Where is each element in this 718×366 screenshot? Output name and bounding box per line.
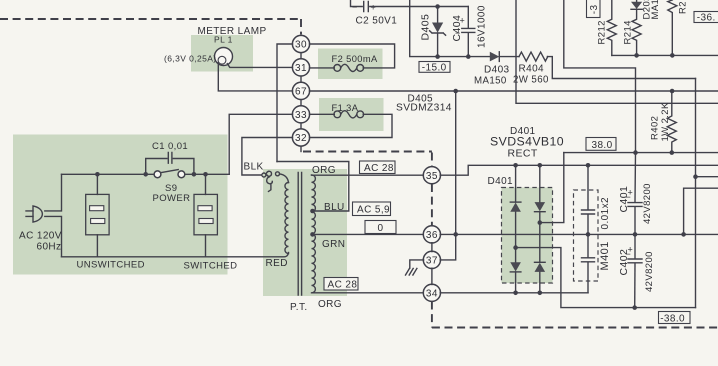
- node: AC line / bridge right: [538, 163, 543, 168]
- svg-text:P.T.: P.T.: [290, 302, 308, 313]
- svg-text:2W 560: 2W 560: [513, 75, 549, 86]
- diode D401c: [535, 202, 546, 211]
- wire: terminal 37 up to 0V line: [440, 234, 456, 260]
- wire: dashed drop to terminal 30: [300, 19, 302, 34]
- svg-text:SVDMZ314: SVDMZ314: [396, 103, 452, 114]
- label: AC 5.9: [353, 202, 391, 216]
- wire: terminal 30 loop to fuse F2: [310, 44, 395, 68]
- resistor R212: [607, 0, 616, 55]
- svg-text:BLK: BLK: [244, 161, 264, 172]
- resistor R214: [632, 9, 641, 55]
- capacitor M401 upper: [587, 165, 589, 209]
- svg-text:67: 67: [295, 87, 307, 98]
- svg-text:R212: R212: [597, 20, 608, 44]
- node 30: [292, 35, 309, 52]
- svg-text:ORG: ORG: [318, 299, 342, 310]
- node: AC line / bridge left: [513, 163, 518, 168]
- svg-text:-36.: -36.: [697, 13, 716, 24]
- wire: 38V rail: [564, 152, 718, 154]
- svg-text:POWER: POWER: [153, 193, 191, 204]
- svg-text:C2 50V1: C2 50V1: [356, 15, 398, 26]
- resistor R216 (clipped): [668, 0, 677, 55]
- wire: C2 to D405/C404 top: [370, 6, 469, 8]
- node: D405 bottom junction: [435, 54, 440, 59]
- wire: 67 rail: [310, 90, 718, 92]
- wire: terminal 34 to bridge AC line (bottom): [440, 292, 588, 294]
- wire: bottom dashed boundary: [432, 327, 718, 329]
- wire: 38V rail to bridge + output: [542, 153, 564, 223]
- wire: C2 feed: [351, 0, 363, 7]
- svg-text:UNSWITCHED: UNSWITCHED: [77, 259, 145, 270]
- wire: bridge - output to -38 rail: [516, 248, 696, 308]
- wire: terminal column link: [300, 34, 302, 146]
- rectifier D401 dashed outline: [502, 188, 553, 284]
- wire: lamp to terminal 67: [218, 63, 292, 91]
- node 35: [423, 167, 440, 184]
- wire: plug lower lead: [45, 216, 62, 256]
- svg-text:R404: R404: [519, 64, 545, 75]
- transformer P.T. secondary winding: [312, 175, 316, 293]
- svg-text:-15.0: -15.0: [422, 62, 447, 73]
- svg-text:C1 0,01: C1 0,01: [152, 141, 188, 152]
- zener D405: [437, 7, 439, 23]
- svg-text:33: 33: [295, 110, 307, 121]
- svg-text:AC 120V: AC 120V: [19, 231, 62, 242]
- wire: terminal 30 to BLU feed corner: [277, 44, 293, 162]
- node: R216 bottom: [670, 53, 675, 58]
- node: R214 bottom: [634, 53, 639, 58]
- node: 0V / drop from 67 rail and terminal 37: [453, 232, 458, 237]
- svg-text:-3: -3: [589, 4, 600, 14]
- svg-text:F2 500mA: F2 500mA: [332, 54, 378, 64]
- wire: bus from top to 103 rail: [516, 0, 718, 103]
- wire: dashed link terminal 35 to terminal 36: [431, 184, 433, 226]
- capacitor C2: [364, 2, 369, 12]
- node: -38 rail / C402: [632, 305, 637, 310]
- wire: 0V drop from 67 rail: [455, 91, 457, 234]
- node: C404 bottom junction: [466, 54, 471, 59]
- wire: terminal 37 to chassis ground: [410, 260, 424, 268]
- wire: bottom return to RED: [62, 253, 289, 257]
- label: -38.0: [659, 312, 691, 324]
- svg-text:0: 0: [378, 223, 384, 234]
- svg-text:(6,3V 0,25A): (6,3V 0,25A): [164, 53, 217, 63]
- wire: right 0V drop: [684, 188, 718, 234]
- wire: BLK to primary top: [280, 174, 289, 183]
- wire: -38 vertical: [695, 79, 697, 308]
- node: outlet 2 tap: [203, 172, 208, 177]
- svg-text:−: −: [352, 2, 358, 12]
- svg-text:M401: M401: [599, 241, 611, 270]
- svg-text:31: 31: [295, 63, 307, 74]
- diode D401d: [535, 263, 546, 272]
- wire: D403 to R404: [499, 56, 519, 58]
- label: 0: [365, 221, 396, 234]
- svg-text:F1 3A: F1 3A: [332, 103, 359, 113]
- capacitor C402: [634, 234, 636, 258]
- svg-text:38.0: 38.0: [592, 140, 613, 151]
- svg-text:AC 5,9: AC 5,9: [357, 205, 390, 216]
- label: AC 28 (top): [360, 161, 396, 174]
- wire: unswitched top feed: [62, 173, 155, 175]
- node 67: [292, 82, 309, 99]
- ground: [406, 268, 417, 275]
- svg-text:16V1000: 16V1000: [477, 5, 488, 48]
- wire: terminal 31 to fuse F2: [310, 67, 335, 69]
- svg-text:35: 35: [426, 171, 438, 182]
- svg-text:D405: D405: [420, 14, 432, 41]
- node: junction 38V rail / R402: [670, 150, 675, 155]
- svg-text:MA150: MA150: [650, 0, 661, 20]
- capacitor M401 lower: [587, 234, 589, 257]
- outlet unswitched: [86, 194, 109, 234]
- node 32: [292, 129, 309, 146]
- node 36: [423, 226, 440, 243]
- svg-text:RED: RED: [266, 258, 288, 269]
- transformer core: [298, 173, 301, 296]
- node: bridge + output: [538, 220, 543, 225]
- svg-text:42V8200: 42V8200: [644, 251, 655, 292]
- label: -36.x (clipped): [694, 12, 718, 23]
- node: 0V / M401 mid: [586, 232, 591, 237]
- node: junction 67 rail / R402: [670, 89, 675, 94]
- node: AC line / M401: [586, 163, 591, 168]
- label: 38.0: [586, 138, 616, 151]
- wire: BLU tap to terminal 30 feed: [277, 162, 349, 212]
- node: AC bottom / bridge right: [538, 291, 543, 296]
- svg-text:GRN: GRN: [322, 239, 345, 250]
- highlight: rectifier D401: [502, 188, 553, 284]
- fuse F1: [334, 111, 341, 118]
- svg-text:32: 32: [295, 133, 307, 144]
- node: AC bottom / bridge left: [513, 291, 518, 296]
- switch S9: [154, 171, 161, 178]
- svg-text:R214: R214: [623, 20, 634, 44]
- capacitor C404: [467, 7, 469, 29]
- wire: switched feed up to terminal 33: [229, 114, 292, 174]
- transformer P.T. primary winding: [285, 183, 289, 254]
- svg-text:34: 34: [426, 288, 438, 299]
- svg-text:60Hz: 60Hz: [37, 242, 62, 253]
- label: -3x (clipped): [587, 0, 601, 18]
- svg-text:RECT: RECT: [508, 147, 538, 159]
- wire: +38 feed from top: [564, 0, 636, 153]
- highlight: meter lamp PL1: [191, 35, 253, 72]
- label: -15.0: [419, 62, 450, 73]
- diode D401a: [510, 203, 521, 212]
- svg-text:+: +: [460, 16, 466, 26]
- wire: plug upper lead: [45, 174, 62, 211]
- wire: ORG bottom to terminal 34: [313, 292, 424, 294]
- capacitor M401 dashed outline: [574, 190, 599, 281]
- wire: terminal 35 to bridge AC line: [440, 165, 718, 175]
- node: bridge - output: [513, 245, 518, 250]
- highlight: fuse F1: [319, 98, 384, 131]
- wire: bridge left branch: [515, 165, 517, 292]
- wire: dashed link terminal 32 to terminal 35: [300, 146, 302, 152]
- wire: -38 stub to edge: [696, 176, 718, 178]
- wire: link 37-34: [431, 268, 433, 284]
- node: D405 top junction: [435, 4, 440, 9]
- AC plug: [33, 206, 42, 222]
- svg-text:36: 36: [426, 230, 438, 241]
- node: junction 38V rail / C401: [633, 150, 638, 155]
- node: C1 left: [143, 172, 148, 177]
- wire: bridge right branch: [539, 165, 541, 292]
- lamp PL1: [215, 48, 233, 66]
- highlight: power transformer P.T.: [263, 169, 347, 296]
- svg-text:+: +: [628, 188, 634, 198]
- svg-text:+: +: [628, 245, 634, 255]
- svg-text:37: 37: [426, 256, 438, 267]
- node: 0V / right drop: [681, 232, 686, 237]
- svg-text:-38.0: -38.0: [660, 313, 685, 324]
- svg-text:D401: D401: [488, 176, 514, 187]
- svg-text:0.01x2: 0.01x2: [600, 197, 611, 229]
- fuse F2: [334, 65, 341, 72]
- label: AC 28 (bottom): [324, 278, 358, 291]
- wire: 0V line right of terminal 36: [440, 233, 718, 235]
- node: 0V / C401: [633, 232, 638, 237]
- node: -38 stub junction: [693, 174, 698, 179]
- svg-text:SWITCHED: SWITCHED: [184, 260, 238, 271]
- svg-text:MA150: MA150: [474, 75, 507, 86]
- svg-text:1W 2.2K: 1W 2.2K: [660, 102, 671, 141]
- wire: switched top feed: [185, 173, 230, 175]
- svg-text:AC 28: AC 28: [364, 163, 394, 174]
- wire: terminal 33 to fuse F1: [310, 113, 335, 115]
- svg-text:−: −: [455, 28, 461, 38]
- node 31: [292, 59, 309, 76]
- outlet switched: [194, 194, 217, 234]
- wire: -15 rail: [410, 0, 490, 57]
- wire: top dashed boundary: [0, 18, 301, 20]
- diode D403: [490, 52, 500, 62]
- wire: fuse F1 loop to terminal 32: [310, 114, 393, 137]
- node: junction 67 rail / 0V drop: [453, 89, 458, 94]
- diode D203: [636, 0, 638, 2]
- wire: lamp to terminal 31: [227, 64, 292, 68]
- wire: resistor bottoms rail: [612, 54, 718, 56]
- wire: link 36-37: [431, 243, 433, 252]
- resistor R402: [667, 91, 676, 153]
- svg-text:R402: R402: [650, 116, 661, 140]
- svg-text:R2: R2: [678, 1, 689, 14]
- svg-text:PL 1: PL 1: [214, 34, 233, 44]
- node 37: [423, 251, 440, 268]
- svg-text:AC 28: AC 28: [328, 280, 358, 291]
- node: outlet 1 tap: [95, 172, 100, 177]
- wire: GRN to terminal 36: [313, 233, 424, 235]
- capacitor C401: [634, 153, 637, 203]
- wire: R404 to -38 drop: [547, 57, 695, 79]
- diode D401b: [510, 262, 521, 271]
- wire: terminal 32 down to BLK: [242, 138, 293, 176]
- node 34: [423, 284, 440, 301]
- wire: dashed below terminal 34: [431, 302, 433, 328]
- capacitor C1: [146, 159, 167, 175]
- node: C1 right: [192, 172, 197, 177]
- svg-text:+: +: [371, 3, 377, 13]
- svg-text:D403: D403: [484, 64, 510, 75]
- svg-text:42V8200: 42V8200: [642, 183, 653, 224]
- node 33: [292, 106, 309, 123]
- wire: ORG top to terminal 35: [312, 174, 424, 176]
- resistor R404: [519, 52, 548, 61]
- highlight: AC primary block: [13, 135, 228, 275]
- highlight: fuse F2: [318, 49, 383, 80]
- svg-text:ORG: ORG: [312, 165, 336, 176]
- svg-text:30: 30: [295, 40, 307, 51]
